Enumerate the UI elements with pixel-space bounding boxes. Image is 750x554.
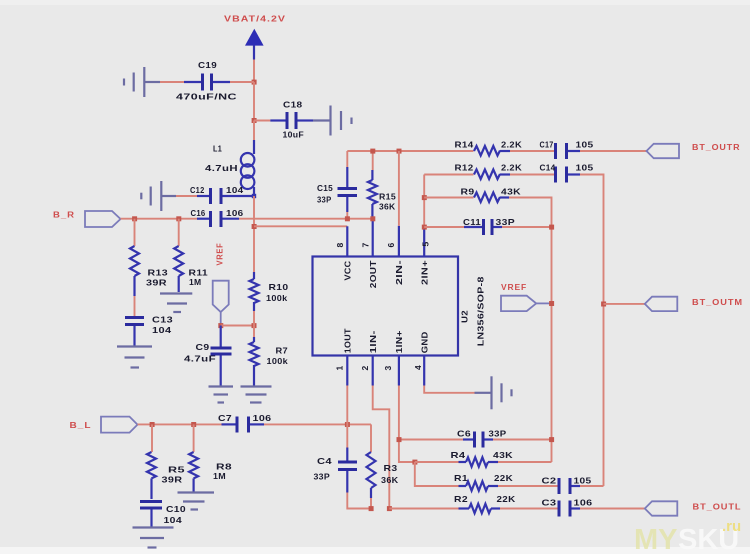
svg-text:1IN-: 1IN-: [368, 330, 378, 353]
wire ground to C12: [176, 195, 197, 197]
wire C6 row: [399, 439, 463, 441]
svg-text:L1: L1: [213, 144, 222, 154]
wire C4 to R2 row: [347, 493, 371, 509]
pin 6: [398, 226, 400, 257]
junction R4 node: [412, 460, 417, 465]
resistor R9 43K: [461, 187, 522, 203]
svg-text:LN356/SOP-8: LN356/SOP-8: [476, 276, 486, 346]
svg-text:104: 104: [164, 515, 183, 525]
junction R3/R2 row: [369, 506, 374, 511]
resistor R13 39R: [130, 219, 168, 296]
wire C11 to vertical A: [502, 226, 552, 228]
svg-text:8: 8: [335, 242, 345, 247]
power flag VBAT/4.2V: [224, 15, 286, 60]
connector BT_OUTL: [645, 501, 678, 515]
pin 7: [372, 219, 374, 257]
connector BT_OUTM: [645, 297, 678, 311]
svg-text:4: 4: [413, 365, 423, 370]
wire pin1 to C4: [346, 386, 348, 448]
wire node down: [253, 82, 255, 121]
svg-text:2OUT: 2OUT: [368, 260, 378, 289]
capacitor C19 470uF/NC: [176, 60, 237, 102]
wire R4 row: [415, 461, 459, 463]
svg-text:106: 106: [574, 498, 593, 508]
junction pin6 top: [397, 149, 402, 154]
wire C19 to node: [230, 81, 254, 83]
junction C18 node: [252, 118, 257, 123]
svg-text:10uF: 10uF: [283, 130, 305, 140]
svg-text:36K: 36K: [381, 475, 399, 485]
svg-text:2IN-: 2IN-: [394, 260, 404, 285]
capacitor C7 106: [218, 413, 272, 433]
ground (below R11): [160, 294, 192, 313]
svg-text:2IN+: 2IN+: [419, 260, 429, 285]
junction C19 node: [252, 80, 257, 85]
capacitor C17 105: [540, 140, 594, 160]
watermark MYSKU.ru: [634, 518, 741, 554]
wire R9 to vertical A: [509, 198, 552, 463]
wire VBAT vertical: [253, 60, 255, 83]
svg-text:C11: C11: [463, 217, 481, 227]
pin 3: [398, 356, 400, 386]
wire R12 to C14: [510, 174, 554, 176]
svg-text:105: 105: [576, 140, 594, 150]
capacitor C9 4.7uF: [184, 326, 232, 386]
node L1/C12: [252, 194, 256, 198]
svg-text:106: 106: [253, 413, 272, 423]
resistor R4 43K: [451, 450, 514, 467]
svg-text:B_L: B_L: [70, 421, 92, 430]
svg-text:1M: 1M: [189, 277, 202, 287]
svg-text:22K: 22K: [497, 494, 517, 504]
svg-text:R2: R2: [454, 494, 468, 504]
resistor R14 2.2K: [455, 140, 523, 156]
junction R13 tap: [132, 216, 137, 221]
svg-text:VREF: VREF: [216, 243, 225, 266]
svg-text:VBAT/4.2V: VBAT/4.2V: [224, 15, 286, 24]
junction R8 tap: [191, 422, 196, 427]
ground (left of C12): [141, 181, 176, 211]
svg-text:6: 6: [386, 242, 396, 247]
junction BT_OUTM/vertical B: [601, 302, 606, 307]
wire pin2 jog: [373, 386, 390, 509]
svg-text:105: 105: [576, 163, 594, 173]
svg-text:R13: R13: [148, 268, 169, 278]
junction pin2/R2 row: [387, 506, 392, 511]
pin 4: [423, 356, 425, 386]
junction C6/vertical A: [549, 437, 554, 442]
svg-text:3: 3: [383, 365, 393, 370]
svg-text:104: 104: [152, 325, 172, 335]
svg-text:R3: R3: [384, 463, 398, 473]
ground (below R7): [241, 387, 272, 403]
capacitor C14 105: [540, 163, 594, 183]
svg-text:C2: C2: [542, 476, 557, 486]
junction R11 tap: [176, 216, 181, 221]
wire node to C18: [254, 120, 270, 122]
svg-text:36K: 36K: [379, 202, 396, 212]
ground (below C9): [209, 387, 234, 403]
wire R4 node to R1 row: [415, 462, 459, 486]
wire C17 to BT_OUTR: [580, 150, 647, 152]
wire pin6 riser: [398, 151, 400, 226]
svg-text:105: 105: [574, 476, 592, 486]
wire C18 node to L1: [253, 121, 255, 141]
connector VREF (down): [213, 281, 229, 312]
svg-text:1M: 1M: [213, 471, 226, 481]
wire 2IN- top rail: [347, 150, 473, 152]
wire R1 to C2: [498, 485, 558, 487]
ground (below C13): [117, 347, 152, 368]
svg-text:2.2K: 2.2K: [501, 140, 523, 150]
connector BT_OUTR: [647, 144, 680, 158]
svg-text:1OUT: 1OUT: [343, 328, 353, 354]
ground (right of C18): [313, 106, 352, 136]
wire R13 to C13: [134, 296, 136, 316]
svg-text:R11: R11: [189, 268, 209, 278]
svg-text:C18: C18: [283, 100, 303, 110]
svg-text:1: 1: [335, 365, 345, 370]
svg-text:B_R: B_R: [53, 211, 75, 220]
capacitor C13 104: [125, 315, 173, 346]
inductor L1 4.7uH: [205, 140, 254, 196]
wire pin3 riser: [399, 386, 415, 463]
svg-text:C7: C7: [218, 413, 232, 423]
resistor R1 22K: [454, 473, 514, 491]
svg-text:1IN+: 1IN+: [394, 330, 404, 353]
svg-text:BT_OUTR: BT_OUTR: [692, 143, 741, 152]
svg-text:33P: 33P: [496, 217, 516, 227]
resistor R11 1M: [174, 219, 208, 292]
capacitor C6 33P: [457, 429, 507, 448]
svg-text:GND: GND: [419, 331, 429, 353]
svg-text:100k: 100k: [266, 293, 288, 303]
svg-text:MY: MY: [634, 524, 678, 554]
pin 8: [346, 226, 348, 256]
svg-text:C6: C6: [457, 429, 471, 439]
wire VCC row: [254, 225, 347, 227]
pin 5: [423, 227, 425, 257]
ground (below C10): [133, 528, 174, 548]
wire R2 row: [389, 508, 458, 510]
svg-text:R12: R12: [455, 163, 474, 173]
resistor R7 100k: [250, 326, 289, 386]
wire VREF to vertical A: [536, 302, 551, 304]
ground (below R8): [178, 493, 215, 510]
svg-text:BT_OUTL: BT_OUTL: [693, 503, 742, 512]
svg-text:43K: 43K: [493, 450, 514, 460]
wire R2 to C3: [500, 508, 558, 510]
svg-text:5: 5: [421, 241, 431, 246]
wire to BT_OUTM: [604, 303, 645, 305]
wire B_R row: [121, 218, 198, 220]
svg-text:2: 2: [360, 365, 370, 370]
wire pin1 node to R3: [370, 424, 372, 452]
junction divider node: [252, 323, 257, 328]
svg-text:7: 7: [361, 242, 371, 247]
svg-text:C9: C9: [196, 342, 210, 352]
pin 2: [372, 356, 374, 386]
wire R4 to vertical A: [498, 461, 552, 463]
wire C6 to vertical A: [493, 439, 552, 441]
connector B_R: [85, 211, 121, 227]
svg-text:39R: 39R: [162, 475, 183, 485]
junction R15/pin7: [370, 216, 375, 221]
ground (pin 4): [475, 376, 512, 409]
svg-text:106: 106: [226, 208, 244, 218]
op-amp U2 LN356/SOP-8: [313, 257, 486, 356]
junction VCC tap: [252, 224, 257, 229]
capacitor C3 106: [542, 498, 593, 517]
svg-text:R10: R10: [269, 282, 289, 292]
junction R5 tap: [150, 422, 155, 427]
svg-text:22K: 22K: [494, 473, 514, 483]
capacitor C11 33P: [463, 217, 515, 235]
svg-text:2.2K: 2.2K: [501, 163, 523, 173]
junction C15 bottom: [345, 216, 350, 221]
svg-text:C17: C17: [540, 140, 554, 150]
svg-text:R15: R15: [379, 192, 396, 202]
svg-text:C14: C14: [540, 163, 556, 173]
junction VREF/vertical A: [549, 301, 554, 306]
wire battery rail down to R10: [253, 196, 255, 272]
junction C7/pin1: [345, 422, 350, 427]
resistor R12 2.2K: [455, 163, 523, 180]
svg-text:33P: 33P: [317, 195, 332, 205]
svg-text:C13: C13: [152, 315, 173, 325]
wire C3 to BT_OUTL: [580, 508, 645, 510]
svg-text:470uF/NC: 470uF/NC: [176, 92, 237, 102]
wire VREF to divider: [221, 325, 254, 327]
svg-text:C10: C10: [166, 504, 186, 514]
capacitor C4 33P: [314, 448, 358, 493]
wire C14 to vertical B: [580, 175, 604, 487]
svg-text:39R: 39R: [146, 278, 167, 288]
svg-text:104: 104: [226, 185, 244, 195]
capacitor C12 104: [190, 185, 254, 204]
svg-text:R5: R5: [168, 465, 185, 475]
wire C2 to vertical B: [580, 485, 604, 487]
svg-text:R8: R8: [216, 462, 232, 472]
junction R15 top: [370, 149, 375, 154]
wire pin4 to ground: [424, 386, 474, 393]
svg-text:4.7uH: 4.7uH: [205, 163, 238, 173]
svg-text:C3: C3: [542, 498, 557, 508]
svg-text:C15: C15: [317, 183, 333, 193]
wire 2OUT row: [239, 218, 373, 220]
svg-text:33P: 33P: [314, 472, 331, 482]
capacitor C15 33P: [317, 151, 357, 219]
svg-text:R9: R9: [461, 187, 475, 197]
svg-text:43K: 43K: [501, 187, 522, 197]
svg-text:4.7uF: 4.7uF: [184, 354, 216, 364]
capacitor C2 105: [542, 476, 592, 495]
wire VREF stem: [220, 312, 222, 326]
capacitor C16 106: [191, 208, 244, 227]
svg-text:R4: R4: [451, 450, 466, 460]
resistor R15 36K: [368, 151, 396, 219]
svg-text:VREF: VREF: [501, 283, 527, 292]
junction pin5/C11: [422, 225, 427, 230]
wire C7 to pin1 node: [264, 423, 371, 425]
resistor R10 100k: [250, 272, 289, 326]
connector B_L: [101, 417, 138, 433]
wire R14 to C17: [510, 150, 554, 152]
wire 2IN+ to R12: [424, 174, 473, 176]
wire B_L row: [138, 423, 222, 425]
svg-text:C12: C12: [190, 185, 205, 195]
svg-text:VCC: VCC: [343, 261, 353, 281]
svg-text:BT_OUTM: BT_OUTM: [692, 298, 743, 307]
svg-text:R7: R7: [276, 346, 289, 356]
svg-text:100k: 100k: [267, 356, 289, 366]
capacitor C18 10uF: [270, 100, 313, 140]
ground (left of C19): [124, 67, 160, 97]
junction pin5/R9: [422, 195, 427, 200]
wire ground to C19: [160, 81, 184, 83]
junction C11/vertical A: [549, 225, 554, 230]
svg-text:C16: C16: [191, 208, 206, 218]
svg-text:C19: C19: [198, 60, 217, 70]
svg-text:R14: R14: [455, 140, 474, 150]
svg-text:.ru: .ru: [722, 518, 741, 535]
resistor R3 36K: [367, 452, 400, 509]
svg-text:U2: U2: [460, 310, 470, 323]
resistor R8 1M: [189, 424, 232, 491]
resistor R2 22K: [454, 494, 516, 513]
pin 1: [346, 356, 348, 386]
wire 2IN+ to C11: [424, 226, 464, 228]
svg-text:R1: R1: [454, 473, 468, 483]
wire 2IN+ to R9: [424, 197, 473, 199]
wire pin5 riser: [423, 175, 425, 228]
junction VREF node: [218, 323, 223, 328]
connector VREF (right): [501, 296, 536, 311]
junction pin3/C6: [397, 437, 402, 442]
svg-text:33P: 33P: [489, 429, 507, 439]
resistor R5 39R: [147, 424, 185, 499]
capacitor C10 104: [140, 502, 186, 527]
svg-text:C4: C4: [317, 456, 332, 466]
